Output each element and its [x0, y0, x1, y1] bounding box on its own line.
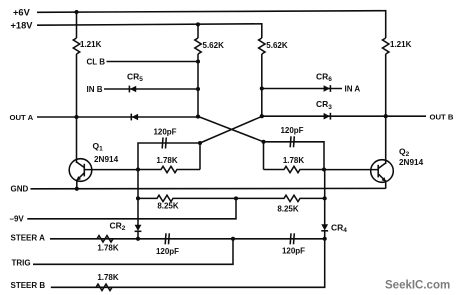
node junction Q1 emitter on GND rail [75, 187, 79, 191]
svg-text:120pF: 120pF [156, 247, 179, 256]
wire left 5.62K lower lead to node A [197, 54, 199, 116]
resistor 8.25K left (Q1 base bias) [138, 195, 236, 201]
svg-text:1.78K: 1.78K [156, 156, 178, 165]
svg-text:1.21K: 1.21K [390, 40, 412, 49]
diode CR1 on OUT A wire [131, 114, 138, 121]
wire left 5.62K upper lead [197, 24, 199, 38]
diode CR3 [324, 113, 331, 120]
diode CR6 [324, 85, 331, 92]
svg-text:120pF: 120pF [280, 126, 303, 135]
svg-text:8.25K: 8.25K [157, 201, 179, 210]
wire CR2 cathode to STEER A node [137, 232, 139, 239]
node junction CL B on left 5.62K branch [196, 59, 200, 63]
svg-text:–9V: –9V [10, 215, 25, 224]
resistor 1.21K left (Q1 collector load) [73, 38, 79, 54]
wire +18V rail [37, 24, 262, 38]
node junction IN B on left 5.62K branch [196, 87, 200, 91]
capacitor C2 120pF right speed-up [290, 136, 294, 147]
wire cross-couple diagonal node A to right RC network [198, 116, 264, 141]
wire Q1 base lead [84, 169, 138, 171]
wire -9V rail with riser to bias midpoint [27, 198, 236, 218]
resistor 1.78K STEER B input [96, 284, 112, 290]
node junction left 8.25K to Q1 base leg [136, 196, 140, 200]
svg-text:+6V: +6V [13, 8, 31, 18]
wire cross-couple diagonal node B to left RC network [200, 116, 262, 143]
svg-text:1.78K: 1.78K [97, 243, 119, 252]
svg-text:2N914: 2N914 [399, 158, 424, 167]
svg-text:+18V: +18V [11, 21, 34, 31]
transistor Q1 2N914 [69, 159, 92, 182]
wire Q2 emitter to ground [385, 181, 387, 189]
wire OUT B [262, 115, 426, 117]
node junction left RC top-right corner [198, 141, 202, 145]
svg-text:SeekIC.com: SeekIC.com [385, 280, 450, 292]
node junction OUT B on Q2 collector [384, 114, 388, 118]
svg-text:OUT B: OUT B [430, 113, 454, 122]
svg-text:1.78K: 1.78K [97, 273, 119, 282]
wire OUT A [37, 116, 198, 118]
diode CR5 [129, 86, 136, 93]
node junction IN A on right 5.62K branch [260, 86, 264, 90]
wire Q1 collector upper lead [76, 12, 78, 38]
node junction Q2 base [322, 167, 326, 171]
wire Q2 base lead [324, 169, 378, 171]
wire CL B input [107, 61, 199, 63]
node junction Q1 base [136, 167, 140, 171]
node junction CR4 on steering line [323, 237, 327, 241]
capacitor C3 120pF left trigger coupling [165, 233, 169, 244]
svg-text:OUT A: OUT A [10, 113, 34, 122]
diode CR4 [321, 224, 328, 231]
wire Q1 collector lower lead [76, 54, 78, 163]
node junction +6V rail to Q1 collector branch [74, 10, 78, 14]
svg-text:120pF: 120pF [282, 247, 305, 256]
svg-text:TRIG: TRIG [12, 259, 31, 268]
resistor 5.62K right [259, 38, 265, 54]
svg-text:5.62K: 5.62K [266, 41, 288, 50]
resistor 8.25K right (Q2 base bias) [236, 195, 325, 201]
svg-text:2N914: 2N914 [94, 155, 119, 164]
svg-text:1.21K: 1.21K [80, 40, 102, 49]
node junction CR2 on STEER A line [136, 237, 140, 241]
svg-text:5.62K: 5.62K [203, 41, 225, 50]
svg-text:CL B: CL B [87, 57, 106, 66]
svg-text:1.78K: 1.78K [283, 156, 305, 165]
wire STEER B line with riser to CR4 node [51, 239, 325, 287]
capacitor C4 120pF right trigger coupling [290, 233, 294, 244]
wire IN B input [104, 88, 198, 90]
wire TRIG line with riser [33, 239, 233, 264]
node A left collector net [196, 115, 200, 119]
node B right collector net [260, 114, 264, 118]
svg-text:120pF: 120pF [153, 127, 176, 136]
resistor 1.78K right feedback [264, 166, 325, 172]
node junction OUT A on Q1 collector [74, 115, 78, 119]
wire Q1 base leg vertical [137, 170, 139, 226]
wire Q1 emitter to ground [76, 180, 78, 190]
svg-text:GND: GND [11, 185, 29, 194]
wire IN A input [262, 88, 342, 90]
wire +6V rail [37, 11, 386, 38]
wire right RC network frame [264, 142, 325, 170]
wire Q2 collector lower lead [385, 54, 387, 164]
resistor 1.78K STEER A input [97, 236, 113, 242]
capacitor C1 120pF left speed-up [162, 138, 166, 149]
wire right 5.62K lower lead to node B [261, 54, 263, 116]
svg-text:8.25K: 8.25K [277, 205, 299, 214]
svg-text:IN A: IN A [345, 84, 361, 93]
transistor Q2 2N914 [371, 160, 394, 183]
wire GND rail [31, 187, 386, 189]
diode CR2 [135, 225, 142, 232]
resistor 1.78K left feedback [138, 166, 200, 172]
wire left RC network frame [138, 143, 200, 170]
svg-text:IN B: IN B [87, 85, 103, 94]
node junction right 8.25K to Q2 base leg [323, 196, 327, 200]
resistor 5.62K left [195, 38, 201, 54]
node junction right RC top-left corner [261, 140, 265, 144]
node junction +18V rail to left 5.62K [196, 22, 200, 26]
svg-text:STEER A: STEER A [11, 234, 46, 243]
node junction bias midpoint to -9V [234, 196, 238, 200]
wire Q2 base leg vertical [324, 170, 326, 225]
node junction TRIG riser on steering line [231, 237, 235, 241]
wire CR4 cathode to steering node [324, 231, 326, 239]
svg-text:STEER B: STEER B [11, 281, 46, 290]
wire STEER A steering line [50, 238, 325, 240]
resistor 1.21K right (Q2 collector load) [383, 38, 389, 54]
